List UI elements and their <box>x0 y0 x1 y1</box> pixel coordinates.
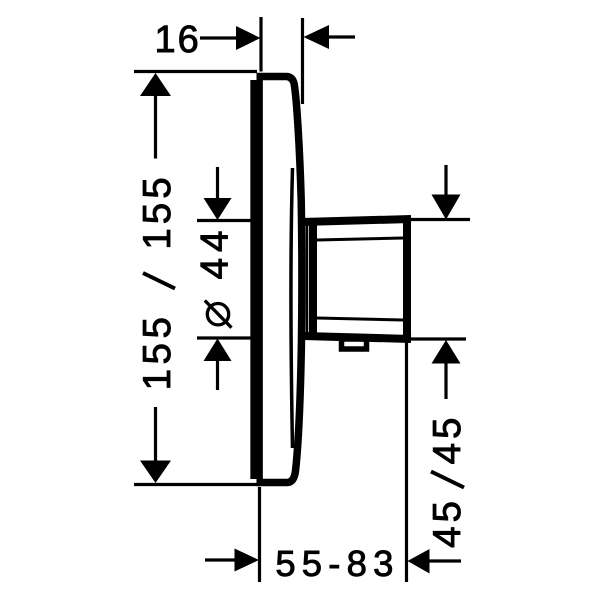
svg-text:55-83: 55-83 <box>275 543 399 584</box>
svg-text:44: 44 <box>194 225 237 280</box>
svg-text:45: 45 <box>426 497 469 548</box>
svg-text:45: 45 <box>426 414 469 465</box>
svg-text:16: 16 <box>155 19 201 61</box>
svg-text:155: 155 <box>136 313 179 391</box>
svg-text:155: 155 <box>136 173 179 249</box>
